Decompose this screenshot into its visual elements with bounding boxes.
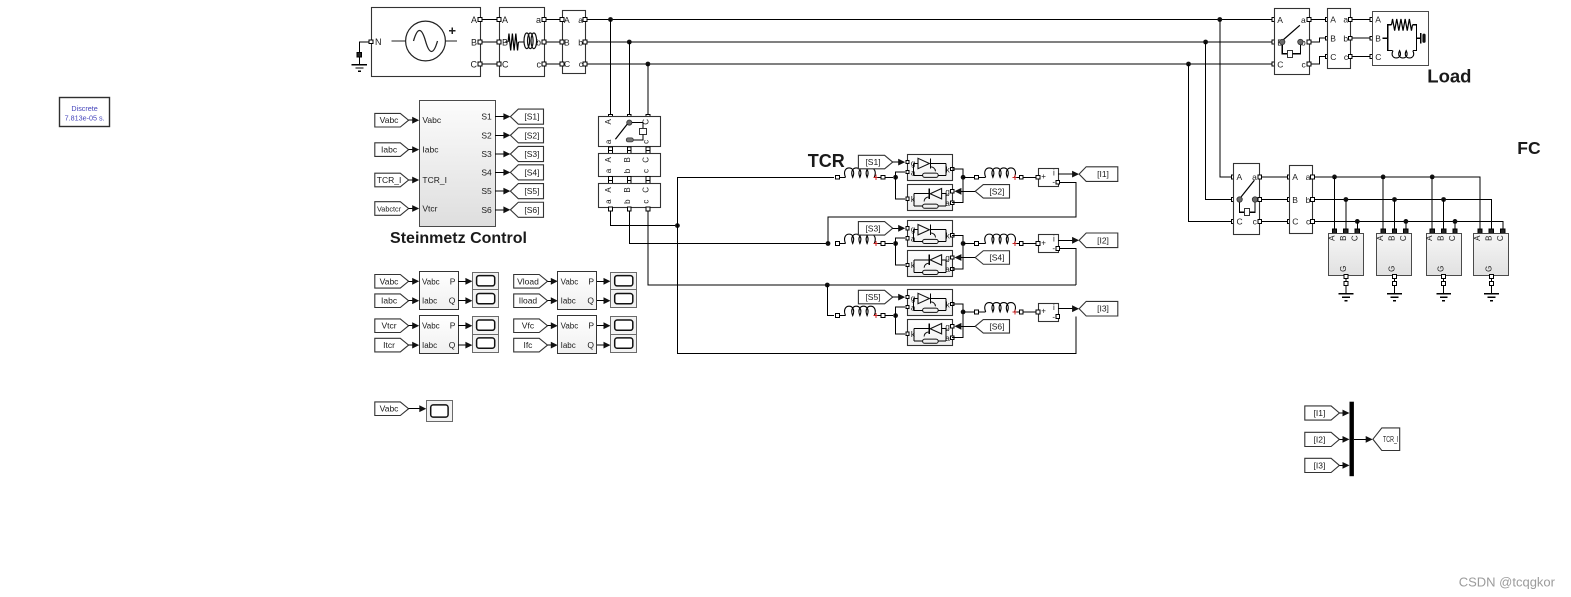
svg-text:c: c (641, 169, 650, 173)
node branch I1 merge junction (961, 175, 966, 180)
wire Vfc to PQ block (548, 325, 556, 327)
goto tag [S4] (510, 165, 543, 180)
wire drop a to bank 2 (1382, 177, 1384, 229)
TCR three-phase breaker block (609, 115, 613, 119)
svg-text:[S1]: [S1] (524, 112, 539, 122)
wire thyristor cathode to merge node (952, 235, 963, 243)
thyristor block S2 (908, 185, 953, 211)
wire RL a to measurement A (546, 19, 560, 21)
svg-text:Vabc: Vabc (422, 322, 440, 331)
TCR V measurement block (599, 154, 661, 177)
wire source C to RL branch C (482, 63, 497, 65)
thyristor S1 ports g a k (906, 161, 909, 164)
node branch I2 merge junction (961, 241, 966, 246)
svg-text:a: a (1343, 15, 1348, 25)
wire merge to second inductor (963, 176, 974, 178)
scope display block (427, 401, 453, 422)
svg-text:G: G (1484, 266, 1493, 272)
svg-text:a: a (536, 15, 541, 25)
svg-text:B: B (471, 38, 477, 48)
svg-text:Vabc: Vabc (380, 404, 399, 414)
node FC bus-b tap 3 (1441, 197, 1446, 202)
wire measurement c to load C (1352, 56, 1370, 58)
wire phase a to TCR branch1 feed (611, 211, 676, 226)
thyristor S2 ports k g a (906, 197, 909, 200)
svg-text:i: i (1053, 169, 1055, 178)
svg-text:c: c (1301, 59, 1306, 69)
current measurement block branch I2 (1039, 235, 1059, 253)
wire bus A to load breaker (1271, 19, 1273, 21)
svg-text:-: - (1052, 178, 1055, 187)
svg-text:i: i (1053, 235, 1055, 244)
FC capacitor bank block 1 (1332, 229, 1336, 233)
node branch I3 merge junction (961, 310, 966, 315)
ground bank 2 (1387, 293, 1402, 295)
wire [I2] to mux (1339, 438, 1347, 440)
svg-text:Vfc: Vfc (522, 321, 535, 331)
svg-text:S3: S3 (481, 149, 492, 159)
svg-text:[S3]: [S3] (524, 149, 539, 159)
wire FC bus phase a (1315, 177, 1480, 229)
ground (source neutral) (359, 42, 370, 52)
inductor TCR linking (branch I1) (975, 175, 979, 179)
goto tag TCR_I (1373, 428, 1400, 451)
wire to bottom thyristor cathode (896, 244, 906, 266)
gate wire bottom thyristor (956, 190, 975, 192)
svg-text:C: C (641, 187, 650, 193)
svg-text:G: G (1339, 266, 1348, 272)
PQ measurement block Vabc/Iabc (420, 272, 459, 310)
display P Vfc (611, 317, 637, 335)
svg-text:Itcr: Itcr (383, 340, 395, 350)
FC capacitor bank block 2 (1381, 229, 1385, 233)
from tag [S6] (mirrored) (975, 320, 1009, 334)
goto tag [S1] (510, 109, 543, 124)
svg-text:a: a (1301, 15, 1306, 25)
node FC bus-c tap 1 (1355, 219, 1360, 224)
svg-text:B: B (1437, 236, 1446, 241)
node A-bus junction to breaker stack (608, 17, 613, 22)
svg-text:Iabc: Iabc (422, 145, 439, 155)
svg-text:a: a (1306, 172, 1311, 182)
svg-text:[S6]: [S6] (989, 321, 1004, 331)
svg-text:[S1]: [S1] (865, 157, 880, 167)
svg-text:C: C (1496, 235, 1505, 241)
wire drop a to bank 1 (1334, 177, 1336, 229)
svg-text:C: C (1277, 59, 1283, 69)
thyristor S4 ports k g a (906, 263, 909, 266)
wire load breaker b to measurement (jog) (1311, 38, 1325, 42)
svg-text:-: - (1052, 312, 1055, 321)
svg-text:[S2]: [S2] (524, 130, 539, 140)
svg-text:[S5]: [S5] (865, 292, 880, 302)
svg-text:Vabc: Vabc (561, 322, 579, 331)
node C-bus junction to breaker stack (646, 62, 651, 67)
svg-text:Q: Q (587, 296, 594, 306)
display P Vtcr (473, 317, 499, 335)
from tag [I3] (1305, 458, 1340, 472)
svg-text:b: b (623, 199, 632, 204)
svg-text:P: P (450, 321, 456, 331)
node FC bus-a tap 1 (1332, 175, 1337, 180)
svg-text:A: A (564, 15, 570, 25)
goto tag [I2] (1079, 233, 1118, 248)
wire source A to RL branch A (482, 19, 497, 21)
wire phase-a riser to branch1 (677, 177, 834, 225)
wire C-bus down to FC breaker (1189, 64, 1232, 221)
svg-text:[S4]: [S4] (989, 253, 1004, 263)
load V-I measurement block (1326, 18, 1330, 22)
wire phase-c drop to branch3 (827, 285, 834, 316)
FC breaker switch icon (1237, 197, 1242, 202)
svg-text:TCR: TCR (808, 151, 845, 171)
PQ measurement block Vtcr/Itcr (420, 316, 459, 354)
svg-text:A: A (1292, 172, 1298, 182)
wire drop b to bank 3 (1443, 200, 1445, 230)
three-phase source block (372, 8, 481, 77)
svg-text:Iload: Iload (519, 296, 538, 306)
inductor TCR linking (branch I2) (975, 242, 979, 246)
RL block ports (497, 18, 501, 22)
svg-text:b: b (1343, 34, 1348, 44)
three-phase series RL branch block (500, 8, 545, 77)
node FC bus-c tap 2 (1404, 219, 1409, 224)
mux block (1350, 402, 1354, 477)
PQ measurement block Vfc/Ifc (558, 316, 597, 354)
svg-text:a: a (604, 139, 613, 144)
from tag Iabc (375, 294, 409, 308)
wire measurement stack joint (609, 177, 613, 181)
node FC bus-c tap 3 (1453, 219, 1458, 224)
wire measurement b to load B (1352, 37, 1370, 39)
from tag Vabc (scope) (375, 402, 409, 416)
svg-text:B: B (1339, 236, 1348, 241)
svg-text:[I1]: [I1] (1314, 408, 1326, 418)
svg-text:A: A (604, 156, 613, 162)
TCR I measurement block (599, 184, 661, 208)
svg-text:[S6]: [S6] (524, 205, 539, 215)
wire P to display (458, 280, 470, 282)
svg-text:c: c (537, 60, 542, 70)
svg-text:S5: S5 (481, 186, 492, 196)
wire bus phase C (587, 63, 1272, 65)
wire [I1] to mux (1339, 412, 1347, 414)
wire to top thyristor anode (896, 307, 906, 316)
thyristor block S3 (908, 221, 953, 247)
svg-text:C: C (641, 157, 650, 163)
thyristor S6 ports k g a (906, 332, 909, 335)
wire Steinmetz S3 to goto tag (495, 153, 508, 155)
breaker switch icon (627, 120, 632, 125)
wire thyristor anode to merge node (952, 177, 963, 202)
svg-text:G: G (1388, 266, 1397, 272)
svg-text:B: B (623, 187, 632, 192)
node FC bus-a tap 2 (1381, 175, 1386, 180)
svg-text:A: A (502, 15, 508, 25)
svg-text:P: P (588, 276, 594, 286)
svg-text:C: C (471, 60, 478, 70)
svg-text:Iabc: Iabc (381, 145, 398, 155)
svg-text:C: C (1350, 235, 1359, 241)
FC three-phase breaker block (1231, 175, 1235, 179)
svg-text:b: b (623, 168, 632, 173)
wire bank 1 G to ground (1344, 275, 1348, 279)
wire B-bus down to TCR breaker (628, 42, 630, 115)
from tag [S3] (858, 222, 892, 236)
gate wire bottom thyristor (956, 325, 975, 327)
display Q Iload (611, 290, 637, 308)
wire thyristor anode to merge node (952, 312, 963, 338)
node TCR phase-c junction (825, 283, 830, 288)
svg-text:Q: Q (449, 296, 456, 306)
wire branch1 return to phase-b node (828, 182, 1076, 243)
svg-text:Q: Q (587, 340, 594, 350)
wire [I3] to mux (1339, 464, 1347, 466)
node TCR phase-a junction (675, 223, 680, 228)
wire bus phase B (587, 41, 1272, 43)
FC V-I measurement block (1288, 175, 1292, 179)
from tag TCR_I (375, 173, 409, 187)
from tag [S1] (858, 155, 892, 169)
svg-text:B: B (564, 38, 570, 48)
wire bank 4 G to ground (1490, 275, 1494, 279)
wire B-bus down to FC breaker (1206, 42, 1232, 200)
wire Steinmetz S1 to goto tag (495, 116, 508, 118)
node FC bus-a tap 3 (1430, 175, 1435, 180)
svg-text:C: C (1448, 235, 1457, 241)
wire Vabctcr to Steinmetz input (409, 208, 418, 210)
svg-text:S4: S4 (481, 167, 492, 177)
wire i output to goto tag [I3] (1058, 308, 1077, 310)
from tag [I2] (1305, 432, 1340, 446)
svg-text:B: B (1330, 34, 1336, 44)
from tag Iabc (375, 143, 409, 157)
svg-text:A: A (1237, 172, 1243, 182)
svg-text:A: A (604, 187, 613, 193)
wire merge to second inductor (963, 243, 974, 245)
svg-text:Q: Q (449, 340, 456, 350)
svg-text:A: A (1330, 15, 1336, 25)
svg-text:TCR_I: TCR_I (377, 175, 402, 185)
wire phase c to TCR branch3 feed (648, 211, 1076, 285)
svg-text:Vabc: Vabc (561, 277, 579, 286)
svg-text:N: N (375, 37, 382, 47)
wire Steinmetz S2 to goto tag (495, 134, 508, 136)
wire Q to display (458, 300, 470, 302)
svg-text:[S3]: [S3] (865, 223, 880, 233)
node FC bus-b tap 2 (1392, 197, 1397, 202)
load RL icon (1383, 37, 1388, 39)
ground bank 1 (1339, 293, 1354, 295)
svg-text:+: + (1041, 307, 1046, 316)
display Q Ifc (611, 335, 637, 353)
svg-text:TCR_I: TCR_I (1383, 435, 1399, 444)
svg-text:[S2]: [S2] (989, 186, 1004, 196)
svg-text:c: c (641, 200, 650, 204)
wire P to display (458, 325, 470, 327)
node FC bus-b tap 1 (1344, 197, 1349, 202)
gate wire top thyristor (893, 161, 904, 163)
svg-text:a: a (604, 199, 613, 204)
svg-text:Vabc: Vabc (380, 276, 399, 286)
wire phase b to TCR branch2 feed (629, 211, 826, 244)
load grounding capacitor icon (1420, 33, 1422, 44)
wire branch2 return down to phase-c line (1058, 249, 1076, 286)
svg-text:B: B (502, 38, 508, 48)
wire RL b to measurement B (546, 41, 560, 43)
svg-text:A: A (604, 118, 613, 124)
svg-text:[I3]: [I3] (1097, 304, 1109, 314)
svg-text:Discrete: Discrete (71, 104, 97, 113)
svg-text:S2: S2 (481, 130, 492, 140)
wire FC breaker a to measurement (1262, 176, 1288, 178)
display P Vload (611, 273, 637, 291)
svg-text:[I2]: [I2] (1097, 235, 1109, 245)
svg-text:i: i (1053, 303, 1055, 312)
wire A-bus down to TCR breaker (610, 20, 612, 115)
wire Vload to PQ block (548, 280, 556, 282)
thyristor S3 ports g a k (906, 227, 909, 230)
svg-text:A: A (1425, 235, 1434, 241)
from tag [I1] (1305, 406, 1340, 420)
goto tag [I3] (1079, 301, 1118, 316)
svg-text:B: B (1388, 236, 1397, 241)
from tag Ifc (514, 338, 548, 352)
load breaker switch icon (1280, 39, 1285, 44)
AC source symbol (392, 40, 406, 42)
wire source B to RL branch B (482, 41, 497, 43)
ground bank 3 (1436, 293, 1451, 295)
svg-text:A: A (471, 15, 477, 25)
wire load breaker c to measurement (jog) (1311, 57, 1325, 65)
wire drop b to bank 1 (1345, 200, 1347, 230)
wire merge to second inductor (963, 311, 974, 313)
goto tag [S3] (510, 146, 543, 161)
wire i output to goto tag [I1] (1058, 173, 1077, 175)
wire bus phase A (587, 19, 1272, 21)
from tag Vabc (375, 275, 409, 289)
wire FC bus phase b (1315, 200, 1492, 230)
wire Iabc to PQ block (409, 300, 418, 302)
wire FC breaker b to measurement (1262, 199, 1288, 201)
gate wire top thyristor (893, 296, 904, 298)
node branch I3 split junction (893, 313, 898, 318)
svg-text:a: a (578, 15, 583, 25)
svg-text:a: a (604, 168, 613, 173)
svg-text:Iabc: Iabc (561, 297, 576, 306)
node B-bus junction to breaker stack (627, 40, 632, 45)
from tag [S4] (mirrored) (975, 251, 1009, 265)
from tag [S2] (mirrored) (975, 185, 1009, 199)
node A-bus junction to FC feeder (1217, 17, 1222, 22)
wire phase-a down to branch3 return (677, 226, 1075, 354)
PQ measurement block Vload/Iload (558, 272, 597, 310)
Steinmetz Control subsystem block (420, 101, 496, 227)
svg-text:Ifc: Ifc (523, 340, 533, 350)
gate wire top thyristor (893, 227, 904, 229)
wire TCR_I to Steinmetz input (409, 179, 418, 181)
svg-text:FC: FC (1517, 138, 1541, 158)
inductor TCR phase (branch I2) (836, 242, 840, 246)
wire load breaker a to measurement (1311, 19, 1325, 21)
svg-text:P: P (588, 321, 594, 331)
wire thyristor anode to merge node (952, 244, 963, 269)
svg-text:S1: S1 (481, 112, 492, 122)
wire Steinmetz S5 to goto tag (495, 190, 508, 192)
svg-text:C: C (1375, 52, 1381, 62)
svg-text:-: - (1052, 244, 1055, 253)
wire drop c to bank 2 (1405, 221, 1407, 229)
goto tag [S5] (510, 184, 543, 199)
thyristor block S1 (908, 155, 953, 181)
node C-bus junction to FC feeder (1186, 62, 1191, 67)
svg-text:C: C (502, 60, 509, 70)
svg-text:Vabc: Vabc (422, 277, 440, 286)
wire drop c to bank 3 (1454, 221, 1456, 229)
load three-phase breaker block (1275, 9, 1310, 75)
display P Vabc (473, 273, 499, 291)
svg-text:G: G (1437, 266, 1446, 272)
svg-text:C: C (1330, 52, 1336, 62)
wire C-bus down to TCR breaker (647, 64, 649, 115)
wire FC bus phase c (1315, 221, 1503, 229)
svg-text:Vabctcr: Vabctcr (377, 205, 402, 214)
wire RL c to measurement C (546, 63, 560, 65)
svg-text:Vabc: Vabc (422, 115, 441, 125)
svg-text:Vtcr: Vtcr (381, 321, 396, 331)
svg-text:B: B (1292, 195, 1298, 205)
wire Ifc to PQ block (548, 344, 556, 346)
inductor TCR linking (branch I3) (975, 310, 979, 314)
from tag Vload (514, 275, 548, 289)
thyristor block S6 (908, 320, 953, 346)
wire P to display (597, 280, 609, 282)
svg-text:[S4]: [S4] (524, 167, 539, 177)
from tag Iload (514, 294, 548, 308)
wire P to display (597, 325, 609, 327)
node branch I2 split junction (893, 241, 898, 246)
wire Vabc to Steinmetz input (409, 119, 418, 121)
node branch I1 split junction (893, 175, 898, 180)
wire Iabc to Steinmetz input (409, 149, 418, 151)
inductor TCR phase (branch I1) (836, 175, 840, 179)
from tag Vtcr (375, 319, 409, 333)
current measurement block branch I3 (1039, 304, 1059, 322)
node TCR phase-b junction (826, 241, 831, 246)
three-phase V-I measurement block 1 (563, 11, 586, 74)
wire mux to TCR_I tag (1354, 438, 1371, 440)
svg-text:B: B (1484, 236, 1493, 241)
display Q Iabc (473, 290, 499, 308)
svg-text:b: b (578, 38, 583, 48)
wire to top thyristor anode (896, 238, 906, 243)
inductor TCR phase (branch I3) (836, 314, 840, 318)
wire Itcr to PQ block (409, 344, 418, 346)
wire breaker to measurement stack (609, 147, 613, 151)
wire bank 3 G to ground (1442, 275, 1446, 279)
three-phase parallel RL load block (1370, 18, 1374, 22)
svg-text:CSDN @tcqgkor: CSDN @tcqgkor (1459, 575, 1556, 590)
from tag Vabctcr (375, 202, 409, 216)
svg-text:Load: Load (1427, 65, 1471, 86)
source ports (369, 40, 373, 44)
svg-text:[S5]: [S5] (524, 186, 539, 196)
wire Vtcr to PQ block (409, 325, 418, 327)
svg-text:A: A (1376, 235, 1385, 241)
wire drop c to bank 1 (1356, 221, 1358, 229)
wire thyristor cathode to merge node (952, 169, 963, 177)
wire to top thyristor anode (896, 172, 906, 177)
